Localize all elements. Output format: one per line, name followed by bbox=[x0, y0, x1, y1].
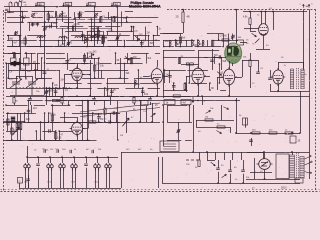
mixer section wire bbox=[153, 36, 155, 47]
wire bbox=[143, 76, 149, 78]
RF section wire rail bbox=[65, 31, 82, 33]
wire bbox=[254, 158, 256, 179]
detector section wire bbox=[173, 83, 175, 90]
AF section right wire bbox=[110, 113, 112, 122]
RF fill resistor bbox=[102, 38, 104, 44]
junction bbox=[206, 151, 208, 153]
RF section wire rail bbox=[42, 26, 58, 28]
return bus wire bbox=[162, 183, 300, 185]
AF section wire rail bbox=[6, 122, 20, 124]
RF fill wire rail bbox=[90, 28, 112, 30]
wire bbox=[204, 76, 210, 78]
junction bbox=[102, 36, 104, 38]
AF section wire rail bbox=[6, 131, 17, 133]
detector section wire rail bbox=[191, 83, 207, 85]
wire V6 anode bbox=[244, 28, 259, 30]
IF section wire bbox=[59, 70, 61, 88]
junction bbox=[124, 63, 126, 65]
junction bbox=[56, 100, 58, 102]
wire stub bbox=[241, 152, 243, 160]
wire bbox=[63, 63, 88, 65]
RF section wire rail bbox=[70, 40, 100, 42]
mixer section wire bbox=[157, 27, 159, 36]
AF section right wire bbox=[92, 113, 94, 122]
band switch section wire rail bbox=[163, 40, 195, 42]
switch contact L14 bbox=[71, 163, 77, 171]
band switch section coil bbox=[176, 40, 177, 45]
V5 cathode wire bbox=[278, 84, 280, 91]
junction bbox=[64, 121, 66, 123]
junction bbox=[180, 46, 182, 48]
RF section wire rail bbox=[107, 40, 122, 42]
AF section right wire bbox=[82, 101, 84, 141]
V3 cathode wire bbox=[198, 84, 200, 96]
wire contact tail bbox=[109, 168, 111, 188]
junction bbox=[49, 156, 51, 158]
RF section wire bbox=[107, 31, 109, 36]
AF section resistor bbox=[20, 124, 22, 130]
wire bbox=[246, 179, 300, 181]
junction bbox=[41, 57, 43, 59]
RF section wire rail bbox=[7, 40, 37, 42]
output transformer T1 secondary bbox=[301, 69, 304, 89]
RF section wire bbox=[64, 36, 66, 47]
stamp highlight bbox=[226, 43, 241, 50]
IF section wire bbox=[131, 58, 133, 64]
capacitor C38 bbox=[241, 170, 245, 172]
wire bbox=[256, 49, 270, 51]
switch contact L12 bbox=[47, 163, 54, 171]
junction bbox=[189, 105, 191, 107]
RF fill wire bbox=[68, 19, 70, 28]
IF section wire bbox=[46, 88, 48, 96]
detector section resistor bbox=[178, 58, 180, 64]
junction bbox=[44, 21, 46, 23]
RF section coil bbox=[55, 11, 56, 16]
wire band switch AB bbox=[68, 7, 70, 47]
seam resistor bbox=[13, 98, 15, 104]
wire bbox=[258, 60, 260, 72]
wire bbox=[242, 60, 258, 62]
wire contact tail bbox=[51, 168, 53, 188]
band switch section wire rail bbox=[163, 46, 174, 48]
AF section right wire bbox=[98, 113, 100, 122]
junction bbox=[265, 11, 267, 13]
AF section wire bbox=[44, 113, 46, 140]
svg-text:220: 220 bbox=[26, 119, 31, 121]
RF section wire bbox=[91, 31, 93, 41]
RF section resistor bbox=[102, 36, 104, 42]
AF section wire rail bbox=[45, 100, 67, 102]
junction bbox=[40, 139, 42, 141]
junction bbox=[115, 63, 117, 65]
junction bbox=[188, 63, 190, 65]
junction bbox=[209, 89, 211, 91]
junction bbox=[34, 69, 36, 71]
junction bbox=[85, 156, 87, 158]
band switch section trimmer bbox=[232, 36, 235, 39]
RF section wire bbox=[8, 36, 10, 41]
junction bbox=[76, 95, 78, 97]
switch bank stub wire 3 bbox=[50, 157, 52, 163]
wire bbox=[160, 33, 183, 35]
RF fill wire bbox=[102, 37, 104, 44]
svg-text:1M: 1M bbox=[100, 119, 103, 121]
junction bbox=[92, 112, 94, 114]
junction bbox=[218, 39, 220, 41]
IF section wire rail bbox=[63, 88, 91, 90]
wire bbox=[126, 112, 128, 133]
svg-text:AB: AB bbox=[66, 3, 70, 6]
RF section wire bbox=[37, 22, 39, 27]
switch contact L16 bbox=[94, 163, 100, 171]
junction bbox=[86, 46, 88, 48]
IF section wire bbox=[84, 53, 86, 64]
transformer T2 core 2 bbox=[298, 153, 300, 181]
RF section wire rail bbox=[78, 22, 112, 24]
junction bbox=[104, 87, 106, 89]
band switch section wire bbox=[202, 40, 204, 47]
junction bbox=[197, 46, 199, 48]
RF section trimmer bbox=[15, 32, 18, 35]
RF section wire rail bbox=[7, 46, 20, 48]
wire bbox=[243, 174, 245, 183]
AVC bus wire bbox=[6, 96, 240, 98]
junction bbox=[91, 18, 93, 20]
junction bbox=[5, 104, 7, 106]
V1 grid wire bbox=[77, 63, 79, 68]
RF section wire bbox=[44, 22, 46, 36]
junction bbox=[148, 35, 150, 37]
wire bbox=[88, 101, 90, 129]
wire V6 grid bbox=[261, 12, 263, 25]
RF section wire rail bbox=[7, 11, 28, 13]
wire bbox=[134, 96, 136, 98]
switch bank stub wire 4 bbox=[62, 157, 64, 163]
detector section wire bbox=[164, 70, 166, 83]
wire bbox=[46, 96, 48, 105]
band switch section wire rail bbox=[213, 40, 238, 42]
wire bbox=[150, 102, 152, 105]
wire bbox=[217, 77, 223, 79]
detector section wire rail bbox=[163, 90, 188, 92]
RF section wire rail bbox=[55, 46, 66, 48]
wire bbox=[116, 112, 118, 122]
junction bbox=[20, 62, 22, 64]
IF section wire bbox=[52, 83, 54, 96]
IF section wire rail bbox=[124, 58, 141, 60]
IF section wire bbox=[111, 88, 113, 96]
band switch section wire bbox=[197, 40, 199, 47]
IF section wire rail bbox=[108, 78, 128, 80]
band switch section wire bbox=[186, 40, 188, 47]
RF section wire bbox=[19, 36, 21, 47]
junction bbox=[56, 18, 58, 20]
detector section wire rail bbox=[163, 50, 195, 52]
transformer T2 secondary bbox=[300, 157, 304, 179]
wire bbox=[250, 31, 256, 33]
RF section wire rail bbox=[32, 11, 54, 13]
mixer section wire bbox=[141, 41, 143, 47]
junction bbox=[46, 87, 48, 89]
wire bbox=[278, 62, 303, 64]
driver section wire rail bbox=[167, 105, 187, 107]
IF section wire bbox=[146, 53, 148, 64]
junction bbox=[21, 11, 23, 13]
IF section wire rail bbox=[96, 70, 128, 72]
IF section wire rail bbox=[155, 53, 160, 55]
wire bbox=[4, 12, 14, 14]
variable capacitor C14 tuning gang bbox=[10, 79, 22, 95]
junction bbox=[131, 26, 133, 28]
RF section wire rail bbox=[116, 22, 133, 24]
junction bbox=[44, 112, 46, 114]
wire bbox=[243, 160, 245, 170]
driver section wire rail bbox=[167, 140, 181, 142]
aerial rail wire bbox=[4, 6, 160, 8]
capacitor C35 bbox=[57, 149, 59, 153]
junction bbox=[48, 121, 50, 123]
IF section wire bbox=[91, 53, 93, 58]
junction bbox=[162, 121, 164, 123]
antenna terminal A1 bbox=[9, 2, 12, 7]
junction bbox=[91, 40, 93, 42]
trimmer C3 bbox=[32, 14, 35, 17]
AF section right wire bbox=[87, 101, 89, 141]
rail wire y100 bbox=[57, 100, 240, 102]
RF section wire bbox=[87, 31, 89, 47]
wire bbox=[235, 77, 242, 79]
wire screen V6 bbox=[273, 12, 275, 31]
RF section wire rail bbox=[27, 46, 53, 48]
AF section resistor bbox=[53, 99, 60, 101]
switch label box B3 bbox=[38, 2, 45, 6]
resistor block R20 bbox=[181, 100, 191, 105]
wire bbox=[270, 91, 309, 93]
wire bbox=[196, 127, 230, 129]
junction bbox=[20, 6, 22, 8]
RF section coil bbox=[72, 26, 73, 31]
junction bbox=[299, 132, 301, 134]
V2 grid wire bbox=[157, 60, 159, 67]
switch arm S1 bbox=[251, 33, 257, 38]
detector section resistor bbox=[186, 63, 193, 65]
seam resistor bbox=[61, 98, 63, 104]
junction bbox=[291, 132, 293, 134]
wire bbox=[218, 160, 220, 168]
RF section wire bbox=[55, 12, 57, 18]
IF section capacitor bbox=[110, 91, 114, 93]
detector section wire rail bbox=[181, 64, 199, 66]
band switch section coil bbox=[198, 40, 199, 45]
junction bbox=[61, 11, 63, 13]
IF section wire rail bbox=[117, 63, 143, 65]
junction bbox=[48, 112, 50, 114]
RF section trimmer bbox=[116, 37, 119, 40]
switch bank bus wire bbox=[27, 157, 118, 159]
junction bbox=[137, 40, 139, 42]
switch contact L13 bbox=[59, 163, 66, 171]
svg-text:48: 48 bbox=[187, 15, 191, 19]
IF section switch arm bbox=[124, 56, 130, 61]
junction bbox=[113, 16, 115, 18]
AF section right resistor bbox=[104, 108, 106, 114]
RF section wire rail bbox=[27, 22, 57, 24]
junction bbox=[89, 95, 91, 97]
V4 cathode wire bbox=[229, 85, 231, 96]
junction bbox=[182, 9, 184, 11]
wire bbox=[236, 42, 238, 44]
IF section wire rail bbox=[99, 63, 111, 65]
resistor R23 bbox=[252, 132, 260, 134]
V7 grid wire bbox=[77, 117, 79, 123]
resistor R24 bbox=[269, 132, 277, 134]
padder capacitor C45 bbox=[84, 164, 88, 166]
wire bbox=[19, 183, 21, 188]
RF section wire bbox=[51, 22, 53, 27]
wire bbox=[38, 168, 40, 188]
valve V1 ECH41 mixer-osc bbox=[70, 66, 84, 82]
driver section wire bbox=[167, 106, 169, 123]
wire bbox=[270, 84, 272, 91]
wire bbox=[245, 118, 247, 128]
junction bbox=[84, 63, 86, 65]
junction bbox=[76, 122, 78, 124]
junction bbox=[68, 6, 70, 8]
band switch section wire bbox=[223, 34, 225, 47]
wire bbox=[9, 7, 11, 12]
resistor R22 bbox=[217, 126, 225, 128]
svg-text:1M: 1M bbox=[205, 117, 208, 119]
RF section wire rail bbox=[104, 17, 133, 19]
junction bbox=[219, 82, 221, 84]
wire stub bbox=[199, 152, 201, 160]
svg-text:200: 200 bbox=[136, 84, 141, 86]
capacitor C64 bbox=[26, 179, 30, 181]
AF section resistor bbox=[7, 119, 9, 125]
IF section wire bbox=[142, 88, 144, 96]
IF section wire bbox=[98, 58, 100, 78]
junction bbox=[81, 100, 83, 102]
band switch section resistor bbox=[179, 37, 181, 43]
long slanted wire bbox=[80, 103, 160, 112]
AF section wire bbox=[40, 122, 42, 140]
choke block Z1 bbox=[276, 154, 289, 179]
RF section wire bbox=[79, 12, 81, 18]
wire bbox=[20, 53, 22, 70]
AF section wire rail bbox=[59, 131, 78, 133]
switch indicator arrow U bbox=[86, 3, 88, 7]
RF fill wire bbox=[62, 28, 64, 44]
dash marks bbox=[186, 159, 199, 161]
capacitor C34 bbox=[44, 149, 46, 153]
svg-text:0,05: 0,05 bbox=[108, 30, 113, 32]
RF fill wire bbox=[97, 28, 99, 44]
junction bbox=[119, 77, 121, 79]
switch indicator arrow AB bbox=[63, 3, 65, 7]
osc section wire rail bbox=[8, 70, 36, 72]
valve V4 driver bbox=[221, 67, 236, 87]
junction bbox=[126, 21, 128, 23]
RF section wire rail bbox=[60, 26, 83, 28]
junction bbox=[197, 39, 199, 41]
junction bbox=[132, 26, 134, 28]
AF section wire bbox=[24, 113, 26, 122]
detector section capacitor bbox=[168, 76, 172, 78]
AF section right wire rail bbox=[82, 140, 97, 142]
antenna terminal A2 bbox=[15, 2, 18, 7]
arrow into box bbox=[192, 97, 194, 103]
switch arm S4 bbox=[210, 161, 216, 166]
AF section wire rail bbox=[6, 113, 36, 115]
RF section wire bbox=[22, 12, 24, 23]
RF section wire bbox=[15, 31, 17, 36]
junction bbox=[87, 100, 89, 102]
junction bbox=[91, 57, 93, 59]
IF section wire rail bbox=[87, 83, 101, 85]
right bus wire bbox=[309, 9, 311, 152]
AF section wire rail bbox=[6, 140, 23, 142]
RF section wire rail bbox=[7, 17, 30, 19]
junction bbox=[52, 104, 54, 106]
wire bbox=[14, 103, 16, 105]
junction bbox=[139, 121, 141, 123]
junction bbox=[164, 69, 166, 71]
detector section capacitor bbox=[219, 55, 221, 59]
junction bbox=[141, 46, 143, 48]
junction bbox=[73, 156, 75, 158]
junction bbox=[235, 9, 237, 11]
junction bbox=[263, 151, 265, 153]
RF fill wire bbox=[84, 37, 86, 44]
AF section wire bbox=[31, 105, 33, 113]
RF section wire rail bbox=[49, 17, 71, 19]
connector block bbox=[295, 178, 303, 183]
detector section wire bbox=[189, 64, 191, 83]
IF section wire bbox=[101, 70, 103, 78]
RF fill wire rail bbox=[89, 37, 108, 39]
junction bbox=[84, 36, 86, 38]
RF section wire rail bbox=[126, 40, 133, 42]
RF fill wire bbox=[91, 19, 93, 37]
junction bbox=[36, 69, 38, 71]
junction bbox=[124, 40, 126, 42]
wire bbox=[30, 102, 32, 105]
coil L1 bbox=[37, 37, 45, 38]
AF section wire bbox=[7, 113, 9, 131]
IF section capacitor bbox=[65, 61, 69, 63]
switch contact L10 bbox=[24, 163, 31, 171]
osc section wire bbox=[25, 64, 27, 79]
wire rail under RF section bbox=[7, 46, 160, 48]
resistor block R27 bbox=[141, 101, 148, 106]
junction bbox=[68, 40, 70, 42]
junction bbox=[277, 90, 279, 92]
detector section switch arm bbox=[217, 71, 223, 76]
stamp inner light window bbox=[228, 49, 231, 53]
RF fill wire rail bbox=[88, 19, 112, 21]
valve V8 output pentode bbox=[257, 153, 273, 179]
IF section wire bbox=[120, 58, 122, 78]
RF section trimmer bbox=[67, 42, 70, 45]
osc section wire bbox=[14, 53, 16, 58]
wire bbox=[250, 25, 252, 32]
junction bbox=[58, 40, 60, 42]
wire bbox=[230, 127, 232, 133]
wire contact tail bbox=[63, 168, 65, 188]
wire bbox=[162, 157, 164, 183]
RF fill coil bbox=[85, 38, 86, 43]
